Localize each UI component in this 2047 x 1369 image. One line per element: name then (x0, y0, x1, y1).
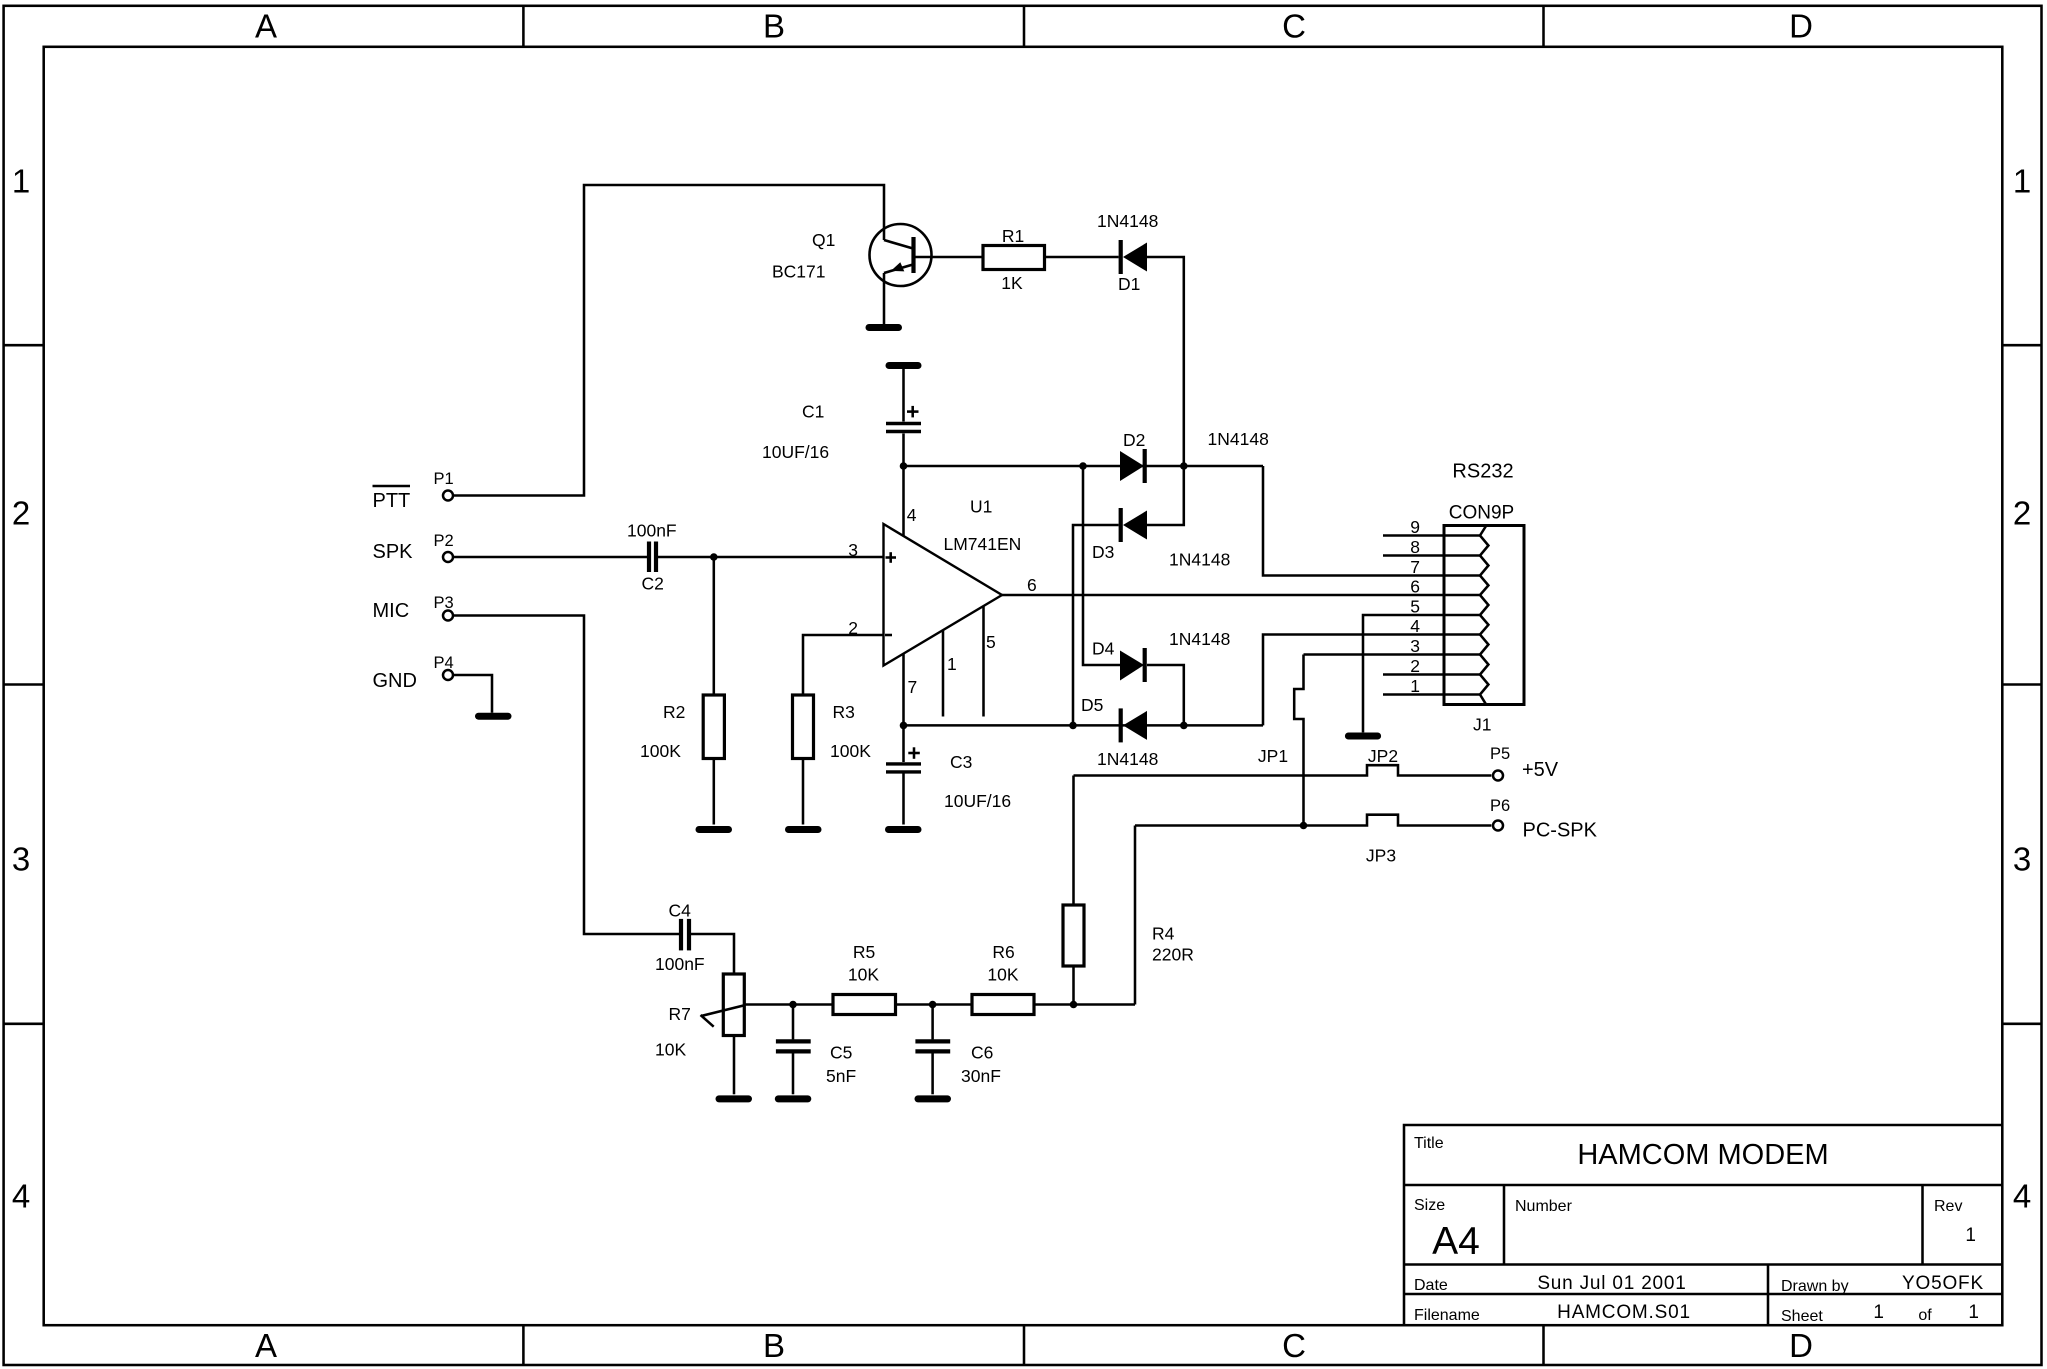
svg-text:P6: P6 (1490, 797, 1510, 815)
diode D1 1N4148 (1097, 211, 1158, 294)
svg-text:1N4148: 1N4148 (1097, 211, 1158, 231)
svg-text:R1: R1 (1002, 226, 1024, 246)
node C5 (789, 1001, 797, 1009)
op-amp U1 LM741EN (848, 466, 1036, 725)
node D2 anode (1079, 462, 1087, 470)
node D4 D5 (1180, 722, 1188, 730)
svg-text:D: D (1789, 1327, 1813, 1364)
wire C4 to R7 (691, 934, 734, 974)
svg-text:100nF: 100nF (627, 521, 677, 541)
svg-text:1N4148: 1N4148 (1097, 749, 1158, 769)
capacitor C1 10UF/16 (762, 366, 921, 467)
jumper JP3 (1135, 815, 1491, 866)
svg-text:Title: Title (1414, 1135, 1444, 1152)
svg-text:30nF: 30nF (961, 1066, 1001, 1086)
diode D3 1N4148 (1092, 508, 1230, 570)
svg-text:MIC: MIC (373, 600, 410, 622)
wire SPK to C2 (453, 556, 647, 559)
potentiometer R7 10K (655, 974, 745, 1094)
svg-text:4: 4 (2013, 1177, 2031, 1214)
node JP1 PC-SPK (1300, 822, 1308, 830)
wire D3 branch (1073, 525, 1119, 725)
node D1 D2 D3 (1180, 462, 1188, 470)
svg-text:P5: P5 (1490, 745, 1510, 763)
ground pin5 (1348, 733, 1377, 740)
svg-text:100K: 100K (640, 741, 681, 761)
svg-text:C2: C2 (642, 574, 664, 594)
svg-text:1N4148: 1N4148 (1169, 629, 1230, 649)
capacitor C2 100nF (627, 521, 677, 594)
svg-text:1: 1 (1968, 1302, 1979, 1323)
svg-text:7: 7 (908, 677, 918, 697)
port P3 MIC (373, 594, 454, 622)
capacitor C4 100nF (655, 901, 705, 974)
svg-text:P4: P4 (434, 654, 454, 672)
svg-text:D5: D5 (1081, 695, 1103, 715)
svg-text:1: 1 (2013, 162, 2031, 199)
jumper JP2 (1074, 746, 1492, 776)
svg-text:10K: 10K (987, 965, 1018, 985)
svg-text:R6: R6 (992, 942, 1014, 962)
svg-text:3: 3 (1410, 636, 1420, 656)
svg-text:R7: R7 (669, 1004, 691, 1024)
svg-text:D4: D4 (1092, 639, 1115, 659)
svg-text:P2: P2 (434, 532, 454, 550)
svg-text:1: 1 (1410, 676, 1420, 696)
wire D1 to node (1147, 257, 1184, 466)
svg-text:220R: 220R (1152, 945, 1194, 965)
svg-text:BC171: BC171 (772, 262, 826, 282)
svg-text:100K: 100K (830, 741, 871, 761)
wire pin5 to ground (1363, 615, 1480, 732)
wire pin1 stub (1383, 693, 1480, 696)
node C6 (929, 1001, 937, 1009)
wire R1 to D1 (1045, 256, 1119, 259)
wire C2 to op-amp pin3 (658, 556, 884, 559)
svg-text:Number: Number (1515, 1198, 1573, 1215)
svg-text:B: B (763, 1327, 785, 1364)
svg-text:C5: C5 (830, 1043, 852, 1063)
svg-text:JP2: JP2 (1368, 746, 1398, 766)
svg-text:3: 3 (2013, 841, 2031, 878)
svg-text:LM741EN: LM741EN (944, 534, 1022, 554)
ground P4 (479, 713, 509, 720)
svg-text:1K: 1K (1001, 273, 1023, 293)
port P1 PTT (373, 470, 454, 512)
svg-text:10K: 10K (655, 1039, 686, 1059)
svg-text:9: 9 (1410, 517, 1420, 537)
svg-text:P3: P3 (434, 594, 454, 612)
svg-text:PTT: PTT (373, 490, 411, 512)
capacitor C6 30nF (915, 1005, 1000, 1095)
svg-text:2: 2 (1410, 656, 1420, 676)
svg-text:YO5OFK: YO5OFK (1902, 1273, 1984, 1294)
svg-text:C: C (1282, 8, 1306, 45)
svg-text:Q1: Q1 (812, 230, 835, 250)
svg-text:3: 3 (12, 841, 30, 878)
wire pin9 stub (1383, 534, 1480, 537)
svg-text:C6: C6 (971, 1043, 993, 1063)
svg-text:10UF/16: 10UF/16 (944, 791, 1011, 811)
svg-text:10UF/16: 10UF/16 (762, 442, 829, 462)
svg-text:D2: D2 (1123, 430, 1145, 450)
svg-text:2: 2 (12, 494, 30, 531)
svg-text:C1: C1 (802, 402, 824, 422)
ground R7 (719, 1095, 749, 1102)
node C1 rail (900, 462, 908, 470)
svg-text:4: 4 (907, 505, 917, 525)
svg-text:C: C (1282, 1327, 1306, 1364)
svg-text:R3: R3 (833, 702, 855, 722)
svg-text:PC-SPK: PC-SPK (1523, 820, 1598, 842)
svg-text:5nF: 5nF (826, 1066, 856, 1086)
ground C3 (889, 826, 919, 833)
svg-text:7: 7 (1410, 557, 1420, 577)
wire MIC net (453, 616, 679, 935)
svg-text:4: 4 (12, 1177, 30, 1214)
svg-text:1: 1 (1965, 1225, 1976, 1246)
svg-text:GND: GND (373, 670, 417, 692)
wire rail to RS232 pin7 (1263, 466, 1480, 576)
svg-text:C3: C3 (950, 752, 972, 772)
ground R3 (789, 826, 819, 833)
svg-text:R2: R2 (663, 702, 685, 722)
svg-text:Rev: Rev (1934, 1198, 1962, 1215)
svg-text:1: 1 (947, 654, 957, 674)
svg-text:C4: C4 (669, 901, 692, 921)
transistor Q1 (772, 224, 932, 324)
node pin7 C3 (900, 722, 908, 730)
svg-text:8: 8 (1410, 537, 1420, 557)
svg-text:RS232: RS232 (1452, 461, 1513, 483)
node C2 R2 (710, 553, 718, 561)
svg-text:Drawn by: Drawn by (1781, 1278, 1849, 1295)
wire filter rail (744, 1003, 1135, 1006)
diode D4 1N4148 (1092, 629, 1230, 682)
wire D3 to node (1147, 466, 1184, 525)
wire pin7 rail (904, 724, 1264, 727)
wire PC-SPK riser (1134, 826, 1137, 1005)
node D5 left (1069, 722, 1077, 730)
resistor R2 100K (640, 557, 724, 825)
svg-text:100nF: 100nF (655, 954, 705, 974)
svg-text:1: 1 (1873, 1302, 1884, 1323)
wire pin8 stub (1383, 554, 1480, 557)
port P2 SPK (373, 532, 454, 563)
svg-text:J1: J1 (1473, 715, 1491, 735)
svg-text:+5V: +5V (1522, 759, 1559, 781)
svg-text:JP3: JP3 (1366, 846, 1396, 866)
svg-text:JP1: JP1 (1258, 746, 1288, 766)
svg-text:D3: D3 (1092, 542, 1114, 562)
svg-text:Filename: Filename (1414, 1307, 1480, 1324)
wire pin3 to JP1 (1304, 653, 1481, 656)
svg-text:HAMCOM.S01: HAMCOM.S01 (1557, 1302, 1691, 1323)
svg-text:2: 2 (2013, 494, 2031, 531)
svg-text:HAMCOM MODEM: HAMCOM MODEM (1577, 1139, 1828, 1171)
wire op-amp pin2 (803, 635, 884, 695)
svg-text:Date: Date (1414, 1277, 1448, 1294)
svg-text:1N4148: 1N4148 (1169, 550, 1230, 570)
wire supply rail (904, 465, 1264, 468)
svg-text:R4: R4 (1152, 924, 1175, 944)
svg-text:A4: A4 (1432, 1220, 1480, 1263)
svg-text:of: of (1918, 1307, 1932, 1324)
capacitor C3 10UF/16 (886, 725, 1011, 824)
diode D5 1N4148 (1081, 695, 1158, 769)
svg-text:A: A (255, 1327, 277, 1364)
svg-text:D1: D1 (1118, 274, 1140, 294)
svg-text:Size: Size (1414, 1197, 1445, 1214)
ground Q1 emitter (869, 324, 899, 331)
wire P4 to ground (453, 675, 492, 713)
svg-text:1N4148: 1N4148 (1208, 429, 1269, 449)
wire PTT net (453, 185, 884, 496)
resistor R1 1K (983, 226, 1045, 293)
svg-text:P1: P1 (434, 470, 454, 488)
capacitor C5 5nF (776, 1005, 856, 1095)
wire D4 branch (1083, 466, 1120, 665)
diode D2 1N4148 (1120, 429, 1269, 483)
resistor R4 220R (1063, 776, 1194, 1005)
wire D4 to node (1147, 665, 1184, 725)
port P4 GND (373, 654, 454, 692)
svg-text:5: 5 (986, 632, 996, 652)
port P5 +5V (1490, 745, 1559, 781)
svg-text:B: B (763, 8, 785, 45)
svg-text:SPK: SPK (373, 541, 414, 563)
resistor R5 10K (833, 942, 896, 1015)
node R4 bottom (1070, 1001, 1078, 1009)
wire D5 rail to RS232 pin4 (1263, 635, 1480, 726)
svg-text:5: 5 (1410, 597, 1420, 617)
wire base to R1 (914, 256, 984, 259)
svg-text:CON9P: CON9P (1449, 503, 1514, 524)
wire pin2 stub (1383, 673, 1480, 676)
ground R2 (699, 826, 729, 833)
resistor R3 100K (793, 695, 872, 825)
svg-text:1: 1 (12, 162, 30, 199)
resistor R6 10K (972, 942, 1034, 1015)
ground C5 (778, 1095, 808, 1102)
svg-text:R5: R5 (853, 942, 875, 962)
svg-text:U1: U1 (970, 497, 992, 517)
svg-text:D: D (1789, 8, 1813, 45)
port P6 PC-SPK (1490, 797, 1598, 842)
ground C6 (918, 1095, 948, 1102)
svg-text:6: 6 (1410, 577, 1420, 597)
jumper JP1 (1258, 655, 1304, 826)
svg-text:Sheet: Sheet (1781, 1308, 1823, 1325)
svg-text:A: A (255, 8, 277, 45)
svg-text:4: 4 (1410, 616, 1420, 636)
wire op-amp output rail (1002, 594, 1480, 597)
svg-text:10K: 10K (848, 965, 879, 985)
connector J1 CON9P RS232 (1410, 461, 1524, 735)
svg-text:6: 6 (1027, 575, 1037, 595)
svg-text:Sun Jul 01 2001: Sun Jul 01 2001 (1537, 1273, 1686, 1294)
